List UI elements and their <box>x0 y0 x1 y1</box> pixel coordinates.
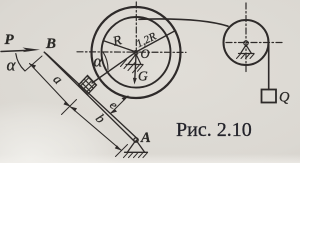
svg-text:α: α <box>94 52 103 71</box>
rope from drum to pulley <box>139 19 228 26</box>
pulley vertical centerline <box>245 3 247 74</box>
radius line to pad contact (down-left 45deg) <box>92 52 136 83</box>
beam AB (double line) <box>44 52 138 142</box>
svg-text:Q: Q <box>279 90 290 106</box>
dimension arrow e (perpendicular to beam) <box>111 96 129 114</box>
pulley pin <box>244 41 248 45</box>
paper background <box>0 0 300 163</box>
drum inner circle R <box>102 17 171 88</box>
radius line 1,2R (up-right) <box>136 31 176 53</box>
pulley support triangle <box>239 45 255 54</box>
extension line at B <box>25 56 42 71</box>
rope down from pulley to weight <box>268 45 270 90</box>
svg-text:G: G <box>138 69 148 84</box>
force P arrowhead <box>23 48 41 53</box>
extension slash at pad <box>62 100 77 115</box>
drum outer circle 1.2R <box>92 7 181 98</box>
brake pad crosshatch <box>68 66 108 105</box>
pulley support hatching <box>237 54 255 59</box>
svg-text:Рис. 2.10: Рис. 2.10 <box>176 119 252 141</box>
support triangle at A <box>125 142 148 153</box>
brake pad block <box>79 76 97 95</box>
svg-text:A: A <box>140 130 151 146</box>
drum axle support triangle <box>126 54 143 65</box>
svg-text:P: P <box>5 32 15 48</box>
pulley circle <box>224 20 269 65</box>
axle pin of drum O <box>134 51 138 55</box>
dimension line b <box>70 107 122 151</box>
dimension line a <box>30 64 71 107</box>
support hatching at A <box>124 153 148 158</box>
svg-text:O: O <box>141 47 150 61</box>
weight Q square <box>262 90 277 103</box>
force P arrow line <box>1 50 30 51</box>
drum support hatching <box>121 60 144 73</box>
drum horizontal centerline <box>77 51 186 54</box>
pulley horizontal centerline <box>226 42 282 44</box>
svg-text:B: B <box>45 36 56 52</box>
svg-text:α: α <box>7 56 17 75</box>
alpha arc at B <box>16 54 25 71</box>
radius line R (up-left) <box>103 41 136 52</box>
gravity force G arrow <box>135 55 136 79</box>
pin at A <box>134 138 138 142</box>
alpha arc inside drum <box>103 52 108 70</box>
extension slash at A <box>116 145 128 157</box>
drum vertical centerline <box>135 2 137 53</box>
